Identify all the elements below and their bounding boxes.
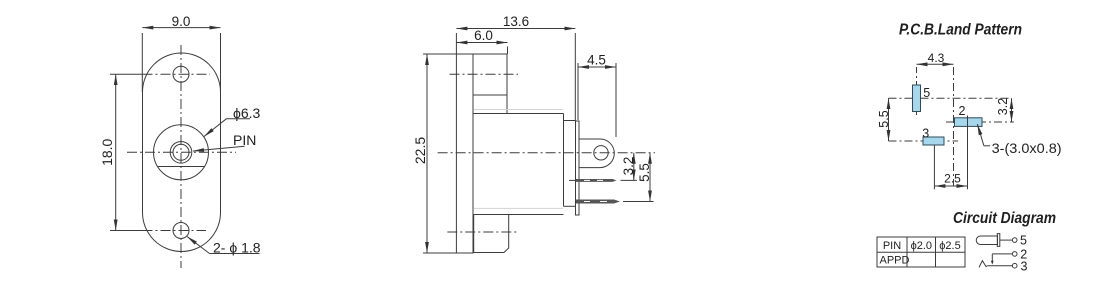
flange plate xyxy=(456,54,473,253)
svg-text:5.5: 5.5 xyxy=(637,163,652,182)
terminal 2 circle xyxy=(1012,252,1017,257)
wire terminal 2 xyxy=(991,254,1013,265)
leader 3-(3.0x0.8) xyxy=(977,124,1061,156)
dimension 3.2 (pattern) xyxy=(996,98,1012,122)
dimension 22.5 xyxy=(412,54,456,253)
svg-text:Circuit Diagram: Circuit Diagram xyxy=(953,210,1056,227)
svg-text:5: 5 xyxy=(923,86,930,100)
pad5 horizontal centerline xyxy=(889,97,1012,99)
svg-text:13.6: 13.6 xyxy=(503,14,529,29)
pad 2 xyxy=(955,118,983,127)
svg-text:5.5: 5.5 xyxy=(877,110,891,127)
main centerline xyxy=(438,152,655,154)
top boss (barrel) xyxy=(473,54,507,95)
bottom boss centerline xyxy=(447,231,518,233)
top boss centerline xyxy=(450,73,519,75)
pad3 horizontal centerline xyxy=(889,140,959,142)
label PIN with leader xyxy=(193,132,256,151)
pin 2 (lower terminal) xyxy=(576,200,620,204)
center hub middle circle xyxy=(170,142,192,164)
center hub outer circle phi6.3 xyxy=(154,125,209,180)
extension line right for 9.0 xyxy=(220,33,222,92)
dimension 18.0 xyxy=(99,74,116,230)
pad2 horizontal centerline xyxy=(946,121,1014,123)
solder lug xyxy=(579,139,614,168)
terminal 3 circle xyxy=(1012,263,1017,268)
svg-text:ϕ2.5: ϕ2.5 xyxy=(939,240,960,252)
svg-text:P.C.B.Land Pattern: P.C.B.Land Pattern xyxy=(899,22,1022,39)
extension line left for 9.0 xyxy=(141,33,143,92)
bottom mounting hole xyxy=(173,223,189,239)
svg-text:APPD: APPD xyxy=(880,254,910,266)
dimension 6.0 xyxy=(456,28,507,54)
chord line across hub xyxy=(158,166,205,168)
dimension 13.6 xyxy=(456,14,575,121)
dimension 4.3 xyxy=(917,51,954,65)
svg-text:4.5: 4.5 xyxy=(587,53,606,68)
pin 1 (upper terminal) xyxy=(576,179,617,182)
extension line from pad3 xyxy=(933,145,935,189)
dimension 9.0 xyxy=(142,14,220,29)
dimension 4.5 xyxy=(578,53,616,138)
wire terminal 3 with spring contact xyxy=(979,261,1012,268)
top hole horizontal centerline xyxy=(110,73,210,75)
vertical centerline xyxy=(180,45,182,268)
svg-text:22.5: 22.5 xyxy=(412,137,428,164)
svg-text:6.0: 6.0 xyxy=(474,28,493,43)
faint inner line top xyxy=(474,109,563,111)
svg-text:4.3: 4.3 xyxy=(928,51,945,65)
pad 5 xyxy=(913,85,921,112)
neck bottom xyxy=(564,205,576,207)
body top edge xyxy=(473,113,564,115)
wire to terminal 5 xyxy=(1000,239,1013,241)
pin 1 stub xyxy=(569,179,576,181)
svg-text:3-(3.0x0.8): 3-(3.0x0.8) xyxy=(992,140,1062,156)
label phi6.3 with leader xyxy=(204,105,261,137)
faint inner line bottom xyxy=(474,207,563,209)
dimension 5.5 (side) xyxy=(623,153,654,202)
center pin hole xyxy=(173,144,189,160)
dimension 2.5 xyxy=(934,172,967,187)
flange outline (stadium shape) xyxy=(143,53,221,252)
step from barrel to body xyxy=(506,95,508,114)
table column divider 1 xyxy=(906,237,908,267)
bottom hole horizontal centerline xyxy=(110,230,206,232)
label 2-phi1.8 with leader xyxy=(187,237,261,256)
plug symbol body xyxy=(976,236,997,245)
svg-text:2: 2 xyxy=(959,104,966,118)
svg-text:3: 3 xyxy=(1021,259,1028,273)
hub horizontal centerline xyxy=(127,151,236,153)
bottom boss xyxy=(474,215,509,253)
svg-text:PIN: PIN xyxy=(883,240,901,252)
svg-text:18.0: 18.0 xyxy=(99,138,115,165)
terminal 5 circle xyxy=(1012,238,1017,243)
table row divider xyxy=(877,251,965,253)
body right edge xyxy=(563,114,565,207)
svg-text:9.0: 9.0 xyxy=(172,14,191,29)
body bottom edge xyxy=(474,214,564,216)
plug symbol flange bar xyxy=(997,234,1000,247)
neck top xyxy=(564,120,576,122)
svg-text:3.2: 3.2 xyxy=(996,98,1010,115)
pattern vertical centerline xyxy=(953,67,955,186)
svg-text:3.2: 3.2 xyxy=(621,157,636,176)
svg-text:2- ϕ 1.8: 2- ϕ 1.8 xyxy=(213,239,261,255)
pad5 vertical centerline xyxy=(916,67,918,118)
dimension 3.2 (side) xyxy=(621,153,638,181)
svg-text:5: 5 xyxy=(1020,233,1027,247)
svg-text:ϕ2.0: ϕ2.0 xyxy=(911,240,932,252)
extension line from pad2 xyxy=(967,116,969,190)
dimension 5.5 (pattern) xyxy=(877,98,891,141)
top mounting hole xyxy=(173,66,189,82)
svg-text:PIN: PIN xyxy=(233,132,256,148)
pad 3 xyxy=(923,137,944,145)
table outline xyxy=(877,237,965,267)
svg-text:2.5: 2.5 xyxy=(944,172,961,186)
table column divider 2 xyxy=(935,237,937,267)
back plate xyxy=(576,121,580,215)
svg-text:3: 3 xyxy=(922,126,929,140)
lug hole xyxy=(594,146,608,160)
